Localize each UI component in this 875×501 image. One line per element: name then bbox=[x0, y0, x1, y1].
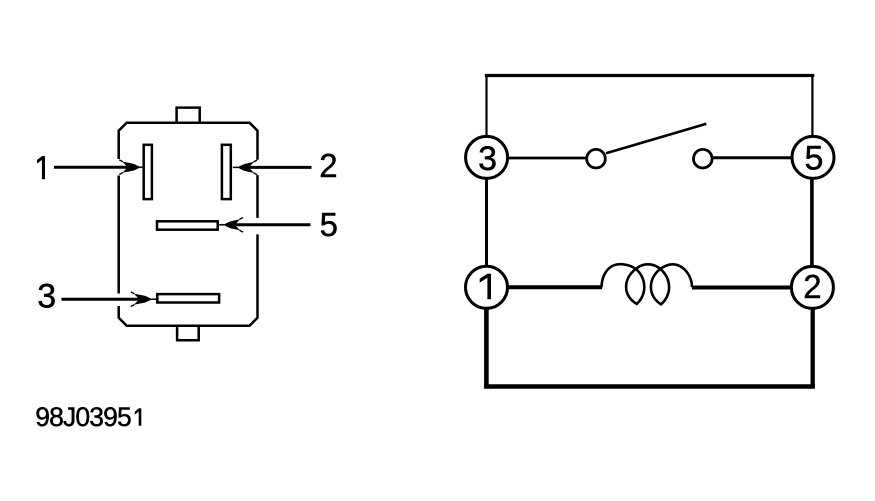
schematic left lower wire node 1 to bottom bbox=[484, 309, 489, 387]
schematic outer frame right upper wire bbox=[811, 76, 813, 137]
wire coil to node 2 bbox=[692, 286, 793, 290]
node 2 terminal circle bbox=[791, 266, 833, 308]
svg-text:3: 3 bbox=[478, 140, 497, 178]
arrow to pin 1 bbox=[54, 160, 142, 175]
coil loop 1 bbox=[626, 269, 644, 304]
pin 3 slot bbox=[157, 294, 219, 302]
schematic outer frame top wire bbox=[485, 74, 814, 77]
pin 5 slot bbox=[157, 221, 218, 229]
coil loop 2 bbox=[651, 269, 669, 304]
relay bottom tab bbox=[177, 326, 199, 341]
schematic right mid wire node 5 to node 2 bbox=[810, 180, 814, 268]
svg-text:2: 2 bbox=[319, 147, 337, 184]
switch contact circle right bbox=[694, 149, 713, 168]
svg-text:3: 3 bbox=[37, 278, 56, 316]
relay connector body outline bbox=[119, 123, 258, 326]
wire node 3 to switch contact bbox=[507, 157, 587, 160]
wire switch contact to node 5 bbox=[713, 156, 794, 159]
svg-text:5: 5 bbox=[804, 139, 823, 177]
schematic right lower wire node 2 to bottom bbox=[811, 309, 815, 387]
figure id text digit 1 bbox=[135, 408, 142, 425]
pin 1 slot bbox=[144, 145, 152, 199]
arrow to pin 3 bbox=[62, 292, 157, 307]
node 1 digit bbox=[480, 274, 491, 300]
schematic outer frame bottom wire bbox=[484, 384, 815, 389]
schematic outer frame left upper wire bbox=[485, 76, 487, 137]
pin 2 slot bbox=[222, 145, 231, 199]
switch blade bbox=[606, 124, 706, 154]
node 3 terminal circle bbox=[466, 136, 508, 178]
label 1 bbox=[37, 156, 45, 179]
svg-text:98J0395: 98J0395 bbox=[35, 402, 131, 432]
svg-text:2: 2 bbox=[803, 268, 821, 305]
switch contact circle left bbox=[587, 149, 606, 168]
coil L1 humps bbox=[602, 264, 693, 287]
node 5 terminal circle bbox=[792, 136, 834, 178]
node 1 terminal circle bbox=[466, 266, 508, 308]
arrow to pin 2 bbox=[233, 160, 312, 175]
schematic left mid wire node 3 to node 1 bbox=[485, 179, 488, 267]
svg-text:5: 5 bbox=[320, 206, 338, 243]
wire node 1 to coil bbox=[507, 285, 602, 289]
relay top tab bbox=[177, 108, 200, 123]
arrow to pin 5 bbox=[219, 218, 310, 233]
